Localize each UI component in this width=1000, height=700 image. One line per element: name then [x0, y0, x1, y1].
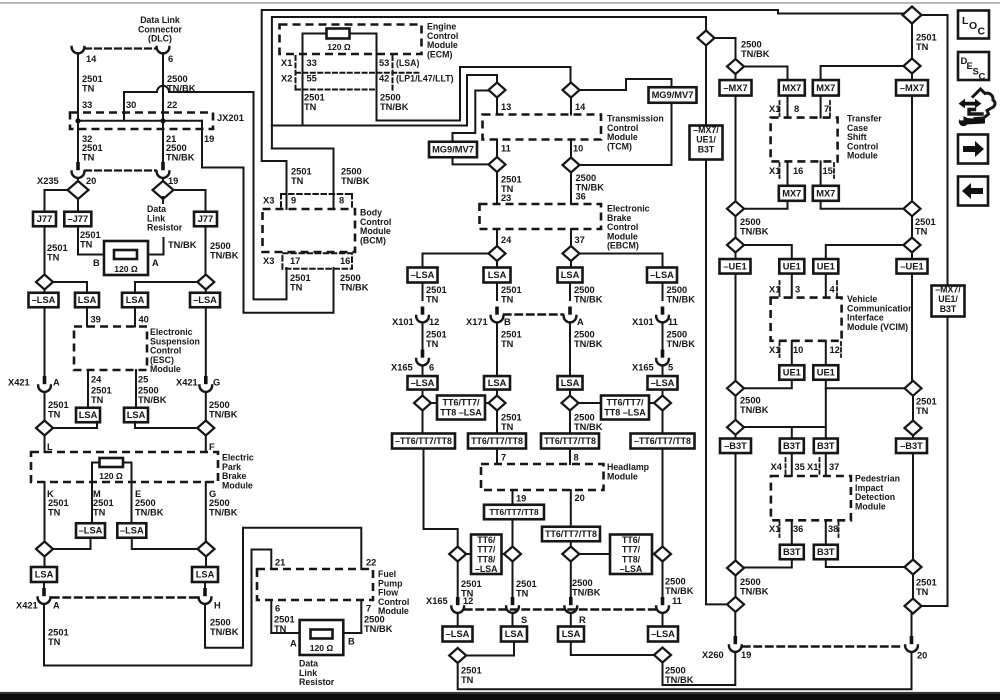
svg-text:C: C — [979, 72, 986, 83]
wire long 2501 bus — [705, 46, 707, 605]
wire stub below diamond — [162, 197, 164, 203]
icon box arrow right — [958, 135, 988, 164]
svg-text:6: 6 — [429, 363, 434, 373]
icon box arrow left — [958, 177, 988, 206]
svg-text:X260: X260 — [702, 650, 724, 660]
svg-text:–MX7/: –MX7/ — [935, 285, 961, 295]
wire PIDM pin 37 — [825, 453, 827, 476]
wire — [512, 519, 514, 547]
svg-text:–MX7: –MX7 — [723, 83, 747, 93]
wire 2501 TN right bus top — [911, 24, 913, 59]
svg-text:Module (VCIM): Module (VCIM) — [847, 322, 908, 332]
svg-text:–J77: –J77 — [67, 214, 88, 224]
page bottom border line — [0, 692, 1000, 694]
wire — [496, 390, 498, 396]
label 2500 TN/BK — [740, 396, 769, 415]
splice diamond below TCM 10 — [563, 158, 580, 173]
wire — [735, 216, 737, 238]
wire EBCM pin 24 — [496, 229, 498, 246]
svg-text:120 Ω: 120 Ω — [310, 643, 334, 653]
svg-text:UE1: UE1 — [817, 368, 835, 378]
svg-text:25: 25 — [138, 375, 148, 385]
wire JX201 internal bus — [78, 120, 202, 122]
svg-text:TT6/TT7/TT8: TT6/TT7/TT8 — [489, 507, 539, 517]
icon box DESC — [958, 52, 989, 83]
wire ESC pin 25 — [135, 370, 137, 408]
label 2501 TN — [461, 579, 482, 598]
svg-text:TT6/TT7/TT8: TT6/TT7/TT8 — [544, 436, 596, 446]
svg-text:10: 10 — [573, 144, 583, 154]
svg-text:19: 19 — [168, 176, 178, 186]
wire 2501 TN diamond(706,38) chain — [705, 17, 707, 30]
svg-text:8: 8 — [794, 104, 799, 114]
wire -J77 to resistor B — [78, 226, 104, 254]
svg-text:–LSA: –LSA — [32, 295, 56, 305]
module box Electric Park Brake — [31, 452, 218, 482]
wire — [569, 283, 571, 301]
svg-text:37: 37 — [829, 462, 839, 472]
svg-text:B: B — [504, 317, 511, 327]
module box Headlamp — [481, 464, 604, 490]
wire PIDM pin 38 — [825, 520, 827, 545]
wire 2500 TN/BK from DLC-6 — [162, 53, 164, 162]
net label TT6/TT7/TT8 -LSA (right) — [601, 396, 649, 420]
label 2501 TN — [915, 217, 936, 236]
svg-text:UE1/: UE1/ — [938, 294, 958, 304]
pin strip dash — [833, 163, 835, 178]
fuse label J77 (left) — [33, 212, 56, 227]
wire — [662, 613, 664, 627]
connector X421 pin H — [199, 588, 212, 604]
svg-text:UE1: UE1 — [783, 368, 801, 378]
svg-text:–UE1: –UE1 — [723, 262, 746, 272]
splice diamond — [654, 547, 671, 562]
svg-text:8: 8 — [339, 196, 344, 206]
label 2500 TN/BK — [741, 40, 770, 59]
resistor 120 ohm in ECM — [327, 29, 350, 39]
wire 2500 TN/BK to ECM area (left part) — [124, 92, 157, 121]
svg-text:X1: X1 — [769, 524, 780, 534]
svg-text:TN/BK: TN/BK — [740, 405, 769, 415]
label Electric Park Brake Module — [222, 453, 254, 491]
svg-text:TT6/: TT6/ — [477, 535, 496, 545]
label 2501 TN — [916, 578, 937, 597]
wire TCSM pin 8 — [787, 96, 789, 118]
svg-text:J77: J77 — [198, 214, 214, 224]
label 2501 TN — [426, 330, 447, 349]
label 2500 TN/BK — [667, 330, 696, 349]
svg-text:MX7: MX7 — [782, 189, 801, 199]
label Data Link Connector (DLC) — [138, 15, 183, 44]
wire EBCM pin 37 — [570, 229, 572, 246]
net label -MX7/UE1/B3T — [690, 126, 723, 160]
svg-text:(EBCM): (EBCM) — [607, 241, 639, 251]
net label LSA — [558, 376, 583, 390]
wire to J77 right — [174, 190, 206, 212]
wire — [422, 283, 424, 301]
wire 2501 TN from DLC-14 — [77, 53, 79, 162]
svg-text:16: 16 — [340, 256, 350, 266]
wire VCIM pin 4 — [825, 274, 827, 298]
label 2501 TN — [426, 285, 447, 304]
pin strip dash — [779, 101, 781, 116]
label 2500 TN/BK — [572, 578, 601, 597]
svg-text:TT8/: TT8/ — [477, 554, 496, 564]
svg-text:LSA: LSA — [488, 378, 507, 388]
net label -LSA — [647, 268, 677, 283]
svg-text:Resistor: Resistor — [147, 223, 183, 233]
net label -TT6/TT7/TT8 — [631, 434, 695, 449]
svg-text:A: A — [290, 639, 297, 649]
net label LSA — [76, 408, 100, 423]
label 2500 TN/BK — [380, 93, 409, 112]
svg-text:UE1: UE1 — [817, 262, 835, 272]
svg-text:(LP1/L47/LLT): (LP1/L47/LLT) — [396, 74, 454, 84]
wire -MX7 right bus down — [911, 96, 913, 202]
svg-text:X4: X4 — [771, 462, 783, 472]
wire bus3 from UE1 row — [825, 388, 827, 427]
svg-text:22: 22 — [167, 100, 177, 110]
svg-text:LSA: LSA — [505, 629, 524, 639]
resistor 120 ohm internal — [100, 458, 124, 467]
svg-text:A: A — [577, 317, 584, 327]
svg-text:11: 11 — [501, 144, 511, 154]
svg-text:40: 40 — [139, 315, 149, 325]
svg-text:Module: Module — [855, 501, 886, 511]
svg-text:19: 19 — [516, 494, 526, 504]
svg-text:B3T: B3T — [783, 547, 801, 557]
svg-text:35: 35 — [795, 462, 805, 472]
svg-text:120 Ω: 120 Ω — [99, 471, 123, 481]
svg-text:11: 11 — [668, 317, 678, 327]
svg-text:A: A — [53, 378, 60, 388]
svg-text:LSA: LSA — [78, 295, 97, 305]
label 2501 TN — [291, 167, 312, 186]
pin strip dash — [779, 281, 781, 296]
net label UE1 — [813, 259, 838, 274]
svg-text:24: 24 — [91, 375, 102, 385]
wire 2501 TN to X260 pin 20 — [458, 653, 912, 689]
wire — [496, 261, 498, 268]
wire ESC pin 24 — [87, 370, 89, 408]
svg-text:X165: X165 — [632, 363, 654, 373]
net label TT6/TT7/TT8 (pin20) — [542, 527, 600, 542]
wire diamond B right branch — [580, 79, 672, 90]
pin strip dash — [838, 522, 840, 537]
wire — [912, 396, 914, 421]
svg-text:7: 7 — [501, 453, 506, 463]
wire TCM pin 10 — [570, 140, 572, 158]
svg-text:TT6/TT7/TT8: TT6/TT7/TT8 — [545, 529, 597, 539]
label 2500 TN/BK — [574, 330, 603, 349]
wire — [422, 390, 424, 396]
wire -MX7 bus below -UE1 — [735, 274, 737, 381]
svg-text:17: 17 — [290, 256, 300, 266]
wire — [735, 253, 737, 260]
net label B3T — [814, 439, 838, 454]
svg-text:TN/BK: TN/BK — [574, 294, 603, 304]
label 2501 TN — [501, 330, 522, 349]
svg-text:X165: X165 — [391, 363, 413, 373]
wire B3T to diamond — [744, 559, 792, 567]
wire — [431, 402, 489, 404]
svg-text:Module: Module — [847, 151, 878, 161]
svg-text:B3T: B3T — [698, 144, 715, 154]
wire right bus — [911, 274, 913, 381]
wire PIDM pin 35 — [791, 453, 793, 476]
wire — [911, 74, 913, 80]
wire 2501 TN BCM-9 riser to top right — [262, 10, 903, 209]
wire -LSA to diamond — [132, 538, 198, 549]
svg-text:LSA: LSA — [127, 410, 146, 420]
wire EPB pin E — [131, 482, 133, 524]
wire — [422, 411, 424, 434]
svg-text:–B3T: –B3T — [900, 441, 923, 451]
wire — [735, 74, 737, 80]
wire — [422, 323, 424, 351]
svg-text:C: C — [978, 26, 986, 38]
wire 2500 TN/BK to BCM pin 17 — [254, 92, 287, 299]
wire 2501 TN ECM riser — [272, 17, 706, 149]
label EBCM — [607, 204, 650, 251]
wire to -LSA left — [423, 254, 489, 268]
net label LSA — [484, 268, 511, 283]
wire TCSM pin 15 — [820, 161, 822, 186]
svg-text:TN: TN — [916, 587, 929, 597]
wire hop over DLC-6 wire — [157, 86, 169, 92]
svg-text:X421: X421 — [16, 601, 38, 611]
wire — [512, 562, 514, 599]
net label B3T — [780, 545, 804, 560]
wire headlamp pin 7 — [496, 449, 498, 465]
svg-text:LSA: LSA — [488, 270, 507, 280]
wire 2501 TN h2 to TCM splice — [272, 75, 497, 126]
net label TT6/TT7/TT8/-LSA (left tall) — [471, 535, 502, 575]
svg-text:4: 4 — [830, 285, 836, 295]
wire to UE1 right — [826, 245, 904, 259]
wire — [496, 323, 498, 377]
svg-text:TN/BK: TN/BK — [574, 422, 603, 432]
svg-text:11: 11 — [672, 596, 682, 606]
label 2500 TN/BK — [209, 400, 238, 419]
wire B3T bus2 drop — [791, 427, 793, 439]
svg-text:120 Ω: 120 Ω — [114, 264, 138, 274]
wire to MX7 right pair — [821, 66, 904, 80]
splice diamond — [905, 599, 922, 614]
wire -LSA to diamond — [53, 538, 91, 549]
connector X421 pin A (lower) — [38, 588, 51, 604]
wire to J77 left — [45, 190, 68, 212]
label 2500 TN/BK — [740, 217, 769, 236]
net label B3T — [814, 545, 838, 560]
wire TCSM pin 7 — [820, 96, 822, 118]
label 2500 TN/BK — [341, 167, 370, 186]
wire VCIM pin 3 — [791, 274, 793, 298]
wire to EPB pin F — [205, 436, 207, 453]
splice diamond — [904, 201, 921, 216]
resistor outer box (Data Link Resistor 2) — [300, 620, 344, 655]
wire LSA-R to diamond — [571, 642, 654, 656]
net label LSA — [558, 627, 584, 642]
svg-text:A: A — [152, 258, 159, 268]
svg-text:J77: J77 — [37, 214, 53, 224]
svg-text:53: 53 — [379, 58, 389, 68]
svg-text:TN: TN — [501, 422, 514, 432]
splice diamond — [654, 396, 671, 411]
svg-text:TN: TN — [48, 507, 61, 517]
svg-text:TN: TN — [516, 588, 529, 598]
wire to -J77 — [77, 199, 79, 212]
page bottom black bar — [0, 694, 1000, 700]
svg-text:TN: TN — [48, 637, 61, 647]
junction dot JX201 at 2500 wire — [160, 118, 165, 123]
label 2501 TN — [916, 33, 937, 52]
connector X171 pin B — [491, 307, 504, 323]
icon box LOC — [958, 11, 989, 39]
net label MX7 — [779, 80, 805, 96]
icon transfer arrows and wrench — [959, 89, 995, 126]
net label TT6/TT7/TT8 (pin19) — [484, 505, 544, 520]
label 2500 TN/BK — [210, 618, 239, 637]
net label TT6/TT7/TT8 — [468, 434, 526, 449]
wire — [44, 392, 46, 421]
dashed connector line X421 — [52, 596, 197, 598]
label Headlamp Module — [607, 462, 650, 481]
label Pedestrian Impact Detection Module — [855, 474, 900, 512]
wire EPB pin M — [91, 482, 93, 524]
connector DLC pin 6 — [157, 47, 170, 53]
splice diamond left 2500 bus — [153, 181, 174, 199]
net label -LSA — [190, 293, 220, 308]
label 2501 TN — [501, 413, 522, 432]
svg-text:X1: X1 — [769, 104, 780, 114]
wire — [662, 562, 664, 599]
wire to EPB pin L — [44, 436, 46, 453]
wire LSA to diamond — [53, 422, 97, 428]
label ESC module — [150, 327, 200, 374]
connector X165 pin 5 — [656, 350, 669, 366]
connector X101 pin 12 — [416, 307, 429, 323]
svg-text:TN/BK: TN/BK — [209, 507, 238, 517]
wire — [162, 178, 164, 183]
svg-text:–LSA: –LSA — [620, 564, 643, 574]
wire 2500 TN/BK right bus — [205, 307, 207, 377]
net label -LSA — [648, 376, 678, 390]
wire to MX7 — [744, 67, 788, 81]
svg-text:X1: X1 — [281, 58, 292, 68]
splice diamond — [727, 201, 744, 216]
svg-text:X101: X101 — [632, 317, 654, 327]
svg-text:TN/BK: TN/BK — [210, 627, 239, 637]
pin strip dash — [840, 342, 842, 357]
label 2501 TN 23 — [501, 175, 522, 204]
splice diamond below TCM 11 — [489, 157, 506, 172]
wire to -LSA right — [205, 290, 207, 294]
wire to X260-19 — [734, 612, 736, 637]
resistor outer box (Data Link Resistor) — [104, 241, 148, 275]
wire MG9/MV7 to splice — [453, 157, 489, 164]
svg-text:(LSA): (LSA) — [396, 58, 420, 68]
label 2501 TN — [48, 628, 69, 647]
wire — [77, 178, 79, 183]
splice diamond — [698, 31, 715, 46]
svg-text:TN/BK: TN/BK — [380, 102, 409, 112]
wire 2500 TN/BK J77-right bus — [205, 226, 207, 274]
svg-text:TN/BK: TN/BK — [740, 586, 769, 596]
label 2500 TN/BK — [574, 413, 603, 432]
net label LSA — [558, 268, 583, 283]
svg-text:–LSA: –LSA — [79, 526, 103, 536]
module box Electronic Brake Control Module (EBCM) — [480, 204, 602, 229]
wire — [735, 435, 737, 439]
splice diamond — [197, 421, 214, 436]
svg-text:TT7/: TT7/ — [622, 545, 641, 555]
wire 2501 TN left bus — [44, 307, 46, 377]
wire resistor left leg — [92, 463, 100, 483]
net label -LSA — [408, 376, 438, 390]
BCM pin strip top left v — [280, 194, 282, 208]
svg-text:TN/BK: TN/BK — [210, 250, 239, 260]
svg-text:TN/BK: TN/BK — [665, 675, 694, 685]
splice diamond — [489, 246, 506, 261]
net label LSA — [484, 376, 510, 390]
wire 2500 TN/BK from ECM pin 42 — [377, 67, 571, 121]
resistor 120 ohm — [114, 250, 137, 259]
net label -B3T — [896, 439, 927, 454]
splice diamond — [654, 648, 671, 663]
label Data Link Resistor — [147, 204, 183, 233]
svg-text:TN: TN — [82, 152, 95, 162]
svg-text:B3T: B3T — [817, 547, 835, 557]
wire — [570, 562, 572, 599]
svg-text:–UE1: –UE1 — [900, 262, 923, 272]
label Transfer Case Shift Control Module — [847, 114, 882, 161]
splice diamond — [727, 59, 744, 74]
svg-text:TN/BK: TN/BK — [209, 409, 238, 419]
svg-text:30: 30 — [126, 100, 136, 110]
wire — [662, 366, 664, 377]
svg-text:LSA: LSA — [35, 570, 54, 580]
wire -TT6 bus down-left — [424, 449, 458, 547]
svg-text:X1: X1 — [769, 345, 780, 355]
wire long bus into diamond — [706, 603, 727, 605]
svg-text:B3T: B3T — [783, 441, 801, 451]
ECM pin strip vertical mid — [392, 56, 394, 90]
wire 2500 TN/BK to X260 pin 19 — [663, 653, 736, 685]
svg-text:TN/BK: TN/BK — [574, 339, 603, 349]
splice diamond — [504, 547, 521, 562]
svg-text:16: 16 — [793, 166, 803, 176]
svg-text:X3: X3 — [263, 256, 274, 266]
net label -LSA — [648, 627, 678, 642]
svg-text:TN: TN — [916, 42, 929, 52]
svg-text:20: 20 — [917, 651, 927, 661]
splice diamond — [727, 381, 744, 396]
svg-text:36: 36 — [576, 192, 586, 202]
BCM pin strip top right v — [351, 194, 353, 208]
svg-text:33: 33 — [307, 58, 317, 68]
module box Fuel Pump Flow Control — [257, 569, 373, 600]
net label -LSA — [117, 523, 146, 538]
svg-text:–MX7/: –MX7/ — [693, 125, 719, 135]
wire B3T to diamond — [826, 559, 905, 567]
wire — [662, 323, 664, 351]
connector X235 pin 20 — [72, 162, 85, 178]
wire — [912, 436, 914, 440]
label 2501 TN — [916, 397, 937, 416]
label 2500 TN/BK — [340, 273, 369, 292]
svg-text:TN/BK: TN/BK — [667, 339, 696, 349]
